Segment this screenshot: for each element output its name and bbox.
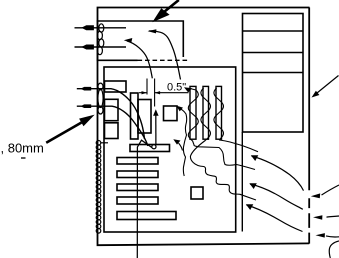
svg-text:0.5": 0.5" bbox=[167, 82, 186, 94]
svg-text:, 80mm: , 80mm bbox=[1, 141, 44, 156]
